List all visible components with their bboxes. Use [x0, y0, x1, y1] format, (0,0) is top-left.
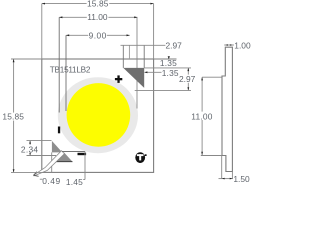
extension line x=153.6 (15.85 right)	[153, 4, 155, 59]
svg-text:15.85: 15.85	[2, 112, 24, 122]
dimension line 15.85 top	[42, 3, 154, 5]
side view profile	[222, 47, 232, 171]
dimension 2.34 (left, vertical)	[27, 140, 52, 142]
extension line y=90.4 (below triangle tip)	[135, 89, 191, 91]
dimension 2.97 (right, vertical)	[187, 68, 189, 91]
minus polarity mark (horizontal dash)	[78, 153, 87, 155]
svg-text:2.34: 2.34	[21, 144, 39, 154]
extension line x=129.4 (9.00 right)	[128, 45, 130, 59]
svg-text:1.50: 1.50	[233, 174, 250, 184]
svg-text:1.00: 1.00	[234, 40, 251, 50]
line from triangle to 1.45 extension	[62, 151, 85, 153]
extension line x=41.8 (15.85 left)	[41, 4, 43, 59]
plus polarity mark	[115, 75, 122, 83]
svg-text:0.49: 0.49	[42, 176, 61, 186]
svg-text:15.85: 15.85	[87, 0, 109, 9]
extension line y=59.05 right of package corner	[154, 58, 177, 60]
extension line x=123.3	[122, 45, 124, 68]
dimension 1.50 (side view bottom)	[221, 156, 223, 179]
extension line x=51.7 below triangle	[51, 152, 53, 172]
label 1.35 (first, vertical gap) with down arrow	[168, 56, 170, 59]
phosphor area (yellow)	[67, 83, 131, 147]
minus mark (vertical dash on ring left)	[58, 127, 60, 134]
cathode triangle 1 (left)	[52, 141, 62, 153]
dimension 15.85 (left, vertical)	[11, 58, 42, 60]
svg-text:11.00: 11.00	[191, 111, 212, 121]
svg-text:1.45: 1.45	[66, 177, 83, 187]
extension line x=144.2	[143, 45, 145, 68]
dimension/leader line 2.97 (top, tab width)	[121, 44, 166, 46]
svg-text:11.00: 11.00	[87, 12, 108, 22]
extension line x=66.0 (9.00 left)	[65, 35, 67, 111]
extension line x=137.0 (11.00 right)	[136, 17, 138, 108]
extension line y=67.9 (triangle top to 2.97 dim)	[144, 67, 191, 69]
svg-text:TB1511LB2: TB1511LB2	[50, 66, 91, 75]
dimension 1.00 (side view top)	[224, 44, 234, 46]
LES ring (light gray)	[58, 77, 138, 153]
package outline (front view)	[42, 59, 154, 172]
0.49 leader wedge (bent)	[34, 151, 65, 176]
dimension line 11.00 top	[59, 16, 137, 18]
svg-text:2.97: 2.97	[179, 74, 196, 84]
extension line x=59.2 (11.00 left)	[58, 17, 60, 112]
cathode triangle 2 (lower)	[56, 152, 72, 161]
svg-text:9.00: 9.00	[89, 31, 107, 41]
logo (black disc with white T)	[135, 152, 145, 163]
leader 1.35 (second)	[145, 71, 162, 73]
0.49 arrow barbs	[34, 172, 37, 176]
svg-text:1.35: 1.35	[162, 68, 179, 78]
dimension line 9.00 top	[66, 34, 130, 36]
dimension 11.00 (side view, vertical)	[202, 76, 222, 78]
svg-text:2.97: 2.97	[166, 40, 183, 50]
extension line x=85 (1.45)	[84, 152, 86, 180]
0.49 text and tick	[40, 178, 43, 180]
svg-text:1.35: 1.35	[160, 58, 177, 68]
polarity marker triangle (top right, dark)	[123, 68, 144, 88]
